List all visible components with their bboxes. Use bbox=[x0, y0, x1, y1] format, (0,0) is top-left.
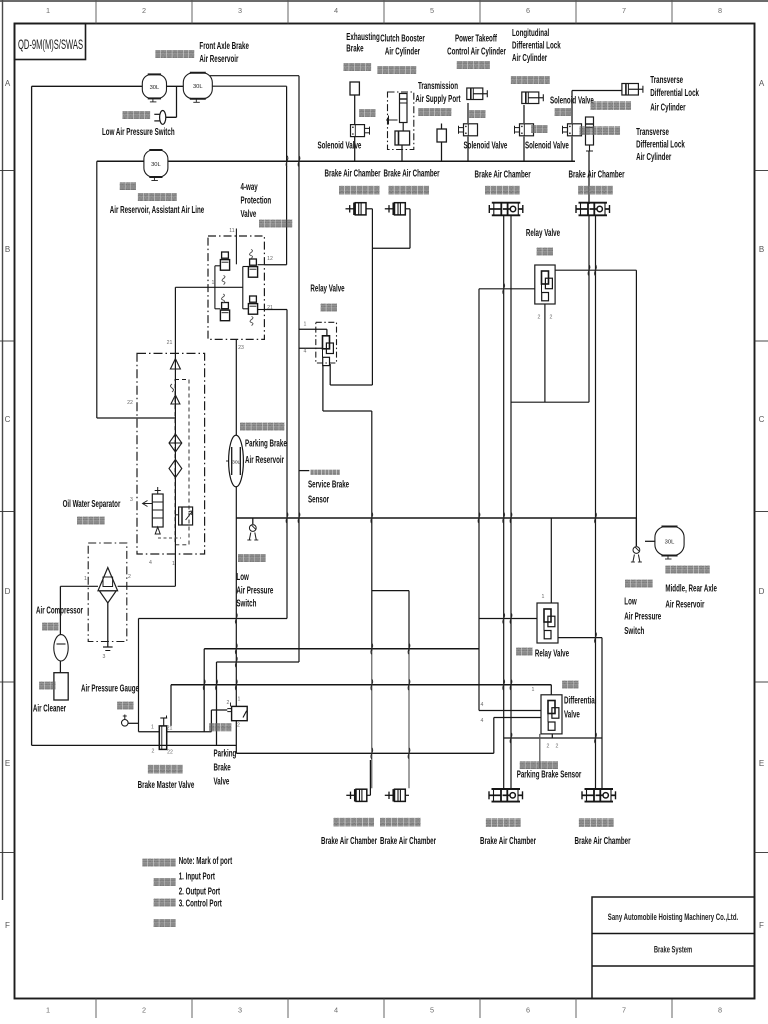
svg-text:▓▓▓: ▓▓▓ bbox=[531, 125, 548, 133]
svg-text:Air Cylinder: Air Cylinder bbox=[385, 45, 421, 57]
power takeoff control air cylinder bbox=[467, 88, 488, 100]
svg-text:2: 2 bbox=[142, 6, 146, 15]
svg-text:D: D bbox=[5, 587, 11, 596]
differential valve spool bbox=[548, 701, 559, 731]
svg-text:Air Reservoir: Air Reservoir bbox=[245, 453, 285, 465]
svg-text:▓▓▓: ▓▓▓ bbox=[39, 682, 56, 690]
wire relay C port1 elbow bbox=[326, 329, 328, 336]
wire y=753.3 parking valve to diff valve bbox=[236, 752, 494, 754]
wire compressor up bbox=[59, 586, 61, 634]
svg-text:1: 1 bbox=[46, 1006, 50, 1015]
svg-text:B: B bbox=[759, 245, 764, 254]
svg-text:Differential Lock: Differential Lock bbox=[650, 86, 699, 98]
svg-text:Air Reservoir: Air Reservoir bbox=[199, 52, 239, 64]
svg-text:Air Pressure Gauge: Air Pressure Gauge bbox=[81, 682, 139, 694]
wire thick reservoir line y=518 bbox=[236, 517, 636, 519]
svg-text:2: 2 bbox=[538, 315, 541, 321]
svg-text:Differential: Differential bbox=[564, 694, 596, 706]
svg-text:Valve: Valve bbox=[564, 708, 580, 720]
check valve on central line (top) bbox=[170, 359, 180, 369]
svg-text:Parking: Parking bbox=[214, 747, 237, 759]
svg-text:▓▓▓▓▓: ▓▓▓▓▓ bbox=[77, 517, 105, 525]
wire parking brake sensor stub bbox=[539, 734, 541, 768]
svg-text:F: F bbox=[759, 921, 764, 930]
brake air chamber 1 (top diaphragm) bbox=[346, 203, 373, 215]
svg-text:Brake System: Brake System bbox=[654, 944, 692, 955]
wire relay valve C bottom-right down bbox=[329, 364, 331, 385]
svg-text:2: 2 bbox=[550, 315, 553, 321]
wire x=371.8 lower gray segment bbox=[371, 651, 373, 788]
wire master valve left port bbox=[139, 731, 160, 733]
svg-text:Brake Air Chamber: Brake Air Chamber bbox=[574, 834, 631, 846]
svg-text:3: 3 bbox=[130, 497, 133, 503]
transmission port stub bbox=[441, 124, 443, 130]
wire y=248.3 chamber link bbox=[372, 247, 410, 249]
svg-text:30L: 30L bbox=[151, 162, 161, 168]
wire res2 mid line y=86.2 bbox=[212, 85, 286, 87]
svg-text:▓▓▓▓▓: ▓▓▓▓▓ bbox=[625, 580, 653, 588]
svg-text:▓▓▓▓▓▓: ▓▓▓▓▓▓ bbox=[142, 859, 176, 867]
solenoid valve 2 power takeoff bbox=[459, 124, 478, 136]
svg-text:Transverse: Transverse bbox=[650, 73, 683, 85]
4-way protection valve dash-dot box bbox=[208, 236, 264, 339]
svg-text:E: E bbox=[5, 759, 10, 768]
wire mid-rear reservoir stub bbox=[645, 540, 655, 542]
wire master valve port 21 up bbox=[170, 685, 172, 726]
svg-text:▓▓▓▓▓▓▓▓: ▓▓▓▓▓▓▓▓ bbox=[665, 566, 710, 574]
svg-text:▓▓▓: ▓▓▓ bbox=[562, 681, 579, 689]
relay valve B spool bbox=[544, 609, 555, 639]
wire parking reservoir down to parking valve bbox=[235, 486, 237, 706]
svg-text:2: 2 bbox=[237, 723, 240, 729]
reservoir 30L assistant air line bbox=[144, 150, 168, 181]
wire power takeoff cylinder to solenoid bbox=[467, 103, 469, 123]
svg-text:▓▓▓▓▓▓▓: ▓▓▓▓▓▓▓ bbox=[155, 50, 195, 58]
wire relay valve C port 1 bbox=[299, 328, 327, 330]
svg-text:Air Pressure: Air Pressure bbox=[236, 584, 273, 596]
svg-text:12: 12 bbox=[267, 256, 273, 262]
wire y=411 bbox=[323, 410, 372, 412]
solenoid valve 1 exhausting brake bbox=[351, 125, 370, 137]
svg-text:Switch: Switch bbox=[624, 624, 644, 636]
filter diamond 1 bbox=[169, 434, 182, 452]
svg-text:21: 21 bbox=[267, 305, 273, 311]
wire oil separator central line x=175.4 bbox=[174, 287, 176, 586]
svg-text:Solenoid Valve: Solenoid Valve bbox=[464, 139, 508, 151]
wire main bus y=161.3 left of res3 bbox=[97, 160, 144, 162]
svg-text:30L: 30L bbox=[665, 539, 675, 545]
low air pressure switch 3 (middle rear) bbox=[631, 547, 642, 562]
svg-text:3: 3 bbox=[238, 6, 242, 15]
reservoir 30L front axle 1 bbox=[142, 74, 166, 102]
svg-text:▓▓▓: ▓▓▓ bbox=[321, 304, 338, 312]
svg-text:Parking Brake Sensor: Parking Brake Sensor bbox=[517, 768, 582, 780]
relay valve C spool bbox=[323, 336, 334, 366]
svg-text:2: 2 bbox=[547, 744, 550, 750]
wire x=371.8 down to chamber A bbox=[371, 411, 373, 651]
clutch booster body bbox=[395, 131, 410, 145]
wire relay valve B left port bbox=[479, 618, 537, 620]
wire diff valve top port bbox=[550, 685, 552, 695]
svg-text:▓▓▓▓▓▓: ▓▓▓▓▓▓ bbox=[148, 764, 183, 774]
wire x=595.5 chamber2 to chamber D bbox=[595, 216, 597, 789]
svg-text:4-way: 4-way bbox=[240, 180, 257, 192]
svg-text:Sany Automobile Hoisting Machi: Sany Automobile Hoisting Machinery Co.,L… bbox=[608, 912, 738, 923]
wire relay valve C bottom-left down bbox=[322, 366, 324, 412]
wire chamber 2 drop bbox=[409, 209, 411, 249]
svg-text:▓▓▓▓▓▓▓: ▓▓▓▓▓▓▓ bbox=[580, 126, 621, 136]
wire res2 top line y=75.7 bbox=[210, 75, 299, 77]
wire relay valve A left port y=288.8 bbox=[479, 288, 535, 290]
svg-text:Brake Air Chamber: Brake Air Chamber bbox=[475, 168, 532, 180]
svg-text:Service Brake: Service Brake bbox=[308, 478, 349, 490]
svg-text:1: 1 bbox=[151, 725, 154, 731]
wire x=589 chamber to U bbox=[588, 216, 590, 403]
4-way valve cartridge bottom-left bbox=[220, 303, 229, 321]
wire parking valve left port bbox=[211, 709, 227, 711]
svg-text:▓▓▓▓▓: ▓▓▓▓▓ bbox=[123, 111, 151, 119]
svg-text:5: 5 bbox=[430, 6, 434, 15]
title box with drawing number bbox=[15, 24, 86, 60]
svg-text:C: C bbox=[759, 415, 765, 424]
wire dryer exhaust down bbox=[107, 603, 109, 647]
svg-text:▓▓▓▓▓▓: ▓▓▓▓▓▓ bbox=[486, 818, 521, 828]
svg-text:▓▓▓: ▓▓▓ bbox=[359, 109, 376, 117]
svg-text:Brake Air Chamber: Brake Air Chamber bbox=[568, 168, 625, 180]
svg-text:Brake Master Valve: Brake Master Valve bbox=[138, 778, 195, 790]
relay valve B (bottom) box bbox=[537, 603, 558, 643]
exhaust brake actuator square bbox=[350, 82, 359, 95]
wire longitudinal cylinder to solenoid bbox=[523, 105, 525, 123]
wire x=211.4 up to parking valve bbox=[210, 710, 212, 732]
solenoid valve 4 transverse diff lock bbox=[563, 124, 582, 136]
svg-text:Brake: Brake bbox=[214, 761, 231, 773]
svg-text:Front Axle Brake: Front Axle Brake bbox=[199, 39, 249, 51]
differential valve box bbox=[541, 695, 562, 734]
svg-text:1. Input Port: 1. Input Port bbox=[179, 870, 215, 882]
wire crossing break squiggles bbox=[203, 156, 596, 759]
svg-text:Relay Valve: Relay Valve bbox=[535, 647, 569, 659]
svg-text:Note: Mark of port: Note: Mark of port bbox=[179, 854, 233, 866]
svg-text:▓▓▓▓▓▓▓: ▓▓▓▓▓▓▓ bbox=[339, 185, 380, 195]
svg-text:▓▓▓▓▓: ▓▓▓▓▓ bbox=[344, 63, 372, 71]
air dryer symbol bbox=[98, 568, 118, 604]
svg-text:▓▓▓▓▓▓▓: ▓▓▓▓▓▓▓ bbox=[389, 185, 430, 195]
wire transverse junction down to solenoid 4 bbox=[571, 91, 573, 124]
wire y=385 bbox=[330, 384, 372, 386]
wire lower master valve line y=745.4 bbox=[32, 744, 237, 746]
svg-text:Solenoid Valve: Solenoid Valve bbox=[550, 94, 594, 106]
wire diff valve lower-left port bbox=[494, 717, 541, 719]
svg-text:Brake: Brake bbox=[346, 42, 363, 54]
svg-text:4: 4 bbox=[304, 349, 307, 355]
wire x=479 long vertical bbox=[478, 289, 480, 711]
svg-text:Oil Water Separator: Oil Water Separator bbox=[63, 497, 121, 509]
solenoid valve 3 longitudinal diff lock bbox=[515, 124, 534, 136]
parking brake valve bbox=[227, 703, 247, 721]
wire x=286.6 down to 4-way port 12 bbox=[286, 86, 288, 265]
svg-text:Relay Valve: Relay Valve bbox=[526, 226, 560, 238]
svg-text:Air Reservoir, Assistant Air L: Air Reservoir, Assistant Air Line bbox=[110, 203, 205, 215]
svg-text:▓▓▓▓: ▓▓▓▓ bbox=[154, 899, 177, 907]
transmission air supply port block bbox=[437, 129, 446, 142]
page top edge scan line bbox=[0, 0, 768, 2]
svg-text:Air Pressure: Air Pressure bbox=[624, 610, 661, 622]
svg-text:Valve: Valve bbox=[214, 775, 230, 787]
svg-text:▓▓▓▓▓▓▓: ▓▓▓▓▓▓▓ bbox=[334, 817, 375, 827]
transverse diff lock air cylinder 2 (vertical) bbox=[586, 117, 594, 151]
svg-text:Air Compressor: Air Compressor bbox=[36, 604, 83, 616]
clutch booster assembly dash-dot box bbox=[388, 92, 414, 150]
reservoir 30L middle rear axle bbox=[655, 527, 684, 560]
svg-text:Parking Brake: Parking Brake bbox=[245, 437, 287, 449]
title block bbox=[592, 897, 755, 999]
wire y=662 to parking loop bbox=[217, 661, 300, 663]
svg-text:Low Air Pressure Switch: Low Air Pressure Switch bbox=[102, 125, 175, 137]
wire exhaust brake to solenoid bbox=[354, 95, 356, 125]
svg-text:Low: Low bbox=[236, 570, 249, 582]
svg-text:1: 1 bbox=[238, 697, 241, 703]
svg-text:D: D bbox=[759, 587, 765, 596]
wire service brake sensor stub bbox=[299, 470, 309, 472]
svg-text:23: 23 bbox=[238, 345, 244, 351]
svg-text:QD-9M(M)S/SWAS: QD-9M(M)S/SWAS bbox=[18, 37, 83, 52]
wire compressor to cleaner bbox=[59, 661, 61, 673]
svg-text:▓▓▓▓: ▓▓▓▓ bbox=[154, 878, 177, 886]
svg-text:6: 6 bbox=[526, 1006, 530, 1015]
wire y=648.8 bbox=[204, 648, 479, 650]
brake air chamber 4 (top spring) bbox=[576, 203, 610, 216]
svg-text:Transmission: Transmission bbox=[418, 79, 458, 91]
svg-text:▓▓▓▓▓▓▓: ▓▓▓▓▓▓▓ bbox=[380, 817, 421, 827]
svg-text:▓▓▓: ▓▓▓ bbox=[516, 648, 533, 656]
svg-text:2: 2 bbox=[142, 1006, 146, 1015]
svg-text:1: 1 bbox=[46, 6, 50, 15]
brake air chamber B (bottom diaphragm) bbox=[385, 789, 409, 801]
svg-text:Middle, Rear Axle: Middle, Rear Axle bbox=[665, 582, 717, 594]
svg-text:Brake Air Chamber: Brake Air Chamber bbox=[324, 167, 381, 179]
low air pressure switch 1 (horizontal) bbox=[154, 111, 165, 125]
wire 4-way port 12 bbox=[264, 264, 286, 266]
svg-text:4: 4 bbox=[149, 560, 152, 566]
svg-text:▓▓▓▓▓▓: ▓▓▓▓▓▓ bbox=[418, 108, 452, 116]
air compressor bbox=[54, 635, 68, 661]
svg-text:Transverse: Transverse bbox=[636, 125, 669, 137]
4-way valve cartridge bottom-right bbox=[248, 296, 257, 314]
svg-text:Switch: Switch bbox=[236, 597, 256, 609]
wire relay valve B output y=637.6 bbox=[558, 637, 602, 639]
wire 4-way valve feed y=287.3 bbox=[175, 286, 213, 288]
svg-text:2: 2 bbox=[556, 744, 559, 750]
wire diff valve bottom stub bbox=[551, 734, 553, 738]
reservoir 30L front axle 2 bbox=[183, 73, 212, 103]
svg-text:11: 11 bbox=[229, 228, 234, 234]
svg-text:Air Cylinder: Air Cylinder bbox=[512, 51, 548, 63]
svg-text:30L: 30L bbox=[150, 85, 160, 91]
svg-text:Clutch Booster: Clutch Booster bbox=[380, 32, 425, 44]
brake air chamber 3 (top spring) bbox=[489, 203, 523, 216]
svg-text:4: 4 bbox=[334, 6, 338, 15]
wire x=409 lower gray segment bbox=[408, 651, 410, 788]
svg-text:21: 21 bbox=[167, 340, 173, 346]
wire solenoid 4 to bus bbox=[571, 137, 573, 162]
separator bottom dashes bbox=[158, 537, 181, 539]
wire y=590.6 jog bbox=[372, 590, 409, 592]
wire x=372.4 up to top chambers bbox=[371, 209, 373, 385]
svg-text:1: 1 bbox=[84, 576, 87, 582]
svg-text:Air Cylinder: Air Cylinder bbox=[636, 150, 672, 162]
parking brake air reservoir vertical capsule bbox=[226, 435, 243, 487]
brake air chamber D (bottom spring) bbox=[582, 789, 616, 802]
wire U line y=402.2 bbox=[511, 401, 589, 403]
svg-text:Solenoid Valve: Solenoid Valve bbox=[525, 139, 569, 151]
wire stub switch 1 bbox=[166, 116, 177, 118]
svg-text:2: 2 bbox=[152, 749, 155, 755]
svg-text:▓▓▓▓: ▓▓▓▓ bbox=[209, 722, 232, 732]
svg-text:Protection: Protection bbox=[240, 194, 271, 206]
svg-text:4: 4 bbox=[481, 718, 484, 724]
ruler row ticks left/right bbox=[0, 170, 15, 172]
clutch booster air cylinder (vertical) bbox=[386, 94, 407, 132]
svg-text:A: A bbox=[5, 79, 11, 88]
svg-text:Differential Lock: Differential Lock bbox=[512, 39, 561, 51]
svg-text:▓▓▓▓▓: ▓▓▓▓▓ bbox=[238, 554, 266, 562]
svg-text:▓▓▓▓: ▓▓▓▓ bbox=[154, 919, 177, 927]
svg-text:8: 8 bbox=[718, 6, 722, 15]
pressure regulator unit bbox=[143, 487, 164, 534]
svg-text:Solenoid Valve: Solenoid Valve bbox=[317, 139, 361, 151]
wire master valve right port to parking valve bbox=[167, 731, 212, 733]
wire relay valve A right port y=270.2 bbox=[555, 269, 636, 271]
svg-text:▓▓▓▓▓▓: ▓▓▓▓▓▓ bbox=[579, 818, 614, 828]
svg-text:1: 1 bbox=[542, 594, 545, 600]
svg-text:▓▓▓▓▓▓▓: ▓▓▓▓▓▓▓ bbox=[138, 193, 178, 201]
svg-text:▓▓▓: ▓▓▓ bbox=[469, 110, 486, 118]
svg-text:Low: Low bbox=[624, 595, 637, 607]
wire transverse cylinder 2 down bbox=[588, 151, 590, 204]
air cleaner bbox=[54, 673, 68, 700]
svg-text:Control Air Cylinder: Control Air Cylinder bbox=[447, 45, 506, 57]
svg-text:B: B bbox=[5, 245, 10, 254]
svg-text:5: 5 bbox=[430, 1006, 434, 1015]
svg-text:E: E bbox=[759, 759, 764, 768]
svg-text:30L: 30L bbox=[232, 459, 240, 465]
svg-text:2. Output Port: 2. Output Port bbox=[179, 885, 221, 897]
filter diamond 2 bbox=[169, 460, 182, 478]
wire x=138.5 down to master valve bbox=[138, 619, 140, 732]
air pressure gauge bbox=[122, 715, 129, 727]
page left edge scan line bbox=[2, 0, 4, 900]
wire x=204.2 down to master valve line bbox=[203, 649, 205, 732]
svg-text:2: 2 bbox=[227, 700, 230, 706]
svg-text:▓▓▓▓▓▓: ▓▓▓▓▓▓ bbox=[259, 220, 293, 228]
svg-text:Air Cleaner: Air Cleaner bbox=[33, 702, 67, 714]
svg-text:3. Control Port: 3. Control Port bbox=[179, 897, 222, 909]
wire x=511 chamber1 through U to chamber C bbox=[510, 216, 512, 789]
wire x=96.8 down bbox=[96, 161, 98, 418]
svg-text:▓▓▓▓▓▓: ▓▓▓▓▓▓ bbox=[457, 61, 491, 69]
brake air chamber A (bottom diaphragm) bbox=[346, 789, 370, 801]
svg-text:7: 7 bbox=[622, 6, 626, 15]
svg-text:▓▓▓▓▓▓▓▓: ▓▓▓▓▓▓▓▓ bbox=[240, 423, 285, 431]
wire y=618.5 to gauge loop bbox=[139, 618, 288, 620]
svg-text:Brake Air Chamber: Brake Air Chamber bbox=[383, 167, 440, 179]
dryer exhaust tick bbox=[103, 646, 113, 648]
svg-text:Air Reservoir: Air Reservoir bbox=[665, 598, 705, 610]
brake air chamber 2 (top diaphragm) bbox=[385, 203, 410, 215]
wire y=684.7 master valve to diff valve bbox=[171, 684, 551, 686]
svg-text:1: 1 bbox=[212, 280, 215, 286]
air dryer dash-dot box bbox=[88, 543, 127, 642]
relay valve A spool bbox=[542, 271, 553, 301]
svg-text:▓▓▓▓▓▓: ▓▓▓▓▓▓ bbox=[485, 185, 520, 195]
wire dryer to separator bbox=[118, 585, 176, 587]
svg-text:▓▓▓: ▓▓▓ bbox=[555, 108, 572, 116]
svg-text:Air Supply Port: Air Supply Port bbox=[415, 92, 460, 104]
svg-text:▓▓▓: ▓▓▓ bbox=[120, 182, 137, 190]
svg-text:3: 3 bbox=[103, 654, 106, 660]
svg-text:Longitudinal: Longitudinal bbox=[512, 26, 549, 38]
wire x=287 down bbox=[286, 310, 288, 619]
wire gauge stub bbox=[128, 722, 138, 724]
svg-text:4: 4 bbox=[334, 1006, 338, 1015]
wire solenoid 2 to bus bbox=[467, 137, 469, 162]
wire main bus y=161.3 right of res3 bbox=[168, 160, 575, 162]
wire diff valve upper-left port bbox=[479, 710, 541, 712]
relay valve A (top-right) box bbox=[535, 265, 555, 304]
low air pressure switch 2 (parking) bbox=[247, 525, 258, 540]
wire x=636.4 vertical bbox=[635, 270, 637, 546]
svg-text:Brake Air Chamber: Brake Air Chamber bbox=[380, 834, 437, 846]
wire switch3 stub bbox=[635, 518, 637, 546]
wire compressor to dryer bbox=[60, 585, 98, 587]
relay valve C (middle-left) dash-dot box bbox=[316, 322, 337, 363]
wire x=216.5 down bbox=[216, 662, 218, 745]
safety valve symbol bbox=[171, 395, 180, 404]
svg-text:Differential Lock: Differential Lock bbox=[636, 138, 685, 150]
svg-text:22: 22 bbox=[167, 750, 173, 756]
wire big left loop vertical x=31.6 bbox=[31, 86, 33, 745]
wire to low pressure switch 1 bbox=[176, 86, 178, 117]
4-way valve cartridge top-right bbox=[248, 259, 257, 277]
svg-text:Sensor: Sensor bbox=[308, 493, 330, 505]
transverse diff lock air cylinder 1 bbox=[622, 84, 643, 96]
brake master valve bbox=[159, 716, 167, 750]
wire solenoid 3 to bus bbox=[523, 137, 525, 162]
longitudinal diff lock air cylinder bbox=[522, 92, 544, 104]
svg-text:3: 3 bbox=[238, 1006, 242, 1015]
svg-text:▓▓▓: ▓▓▓ bbox=[117, 702, 134, 710]
svg-text:▓▓▓▓▓▓▓: ▓▓▓▓▓▓▓ bbox=[591, 101, 632, 111]
wire x=602 down to chamber D bbox=[601, 638, 603, 789]
svg-text:▓▓▓: ▓▓▓ bbox=[42, 623, 59, 631]
svg-text:Relay Valve: Relay Valve bbox=[310, 282, 344, 294]
svg-text:30L: 30L bbox=[193, 84, 203, 90]
wire y=90.5 to transverse cylinder 1 bbox=[572, 90, 622, 92]
wire parking valve bottom bbox=[235, 721, 237, 754]
svg-text:6: 6 bbox=[526, 6, 530, 15]
svg-text:8: 8 bbox=[718, 1006, 722, 1015]
svg-text:7: 7 bbox=[622, 1006, 626, 1015]
svg-text:2: 2 bbox=[128, 574, 131, 580]
svg-text:Brake Air Chamber: Brake Air Chamber bbox=[321, 834, 378, 846]
wire 4-way port 21 bbox=[264, 309, 287, 311]
svg-text:▓▓▓▓▓▓: ▓▓▓▓▓▓ bbox=[578, 185, 613, 195]
drain valve unit bbox=[176, 507, 193, 525]
wire clutch booster to bus bbox=[401, 145, 403, 161]
wire relay valve A output down bbox=[544, 304, 546, 402]
svg-text:21: 21 bbox=[167, 726, 173, 732]
